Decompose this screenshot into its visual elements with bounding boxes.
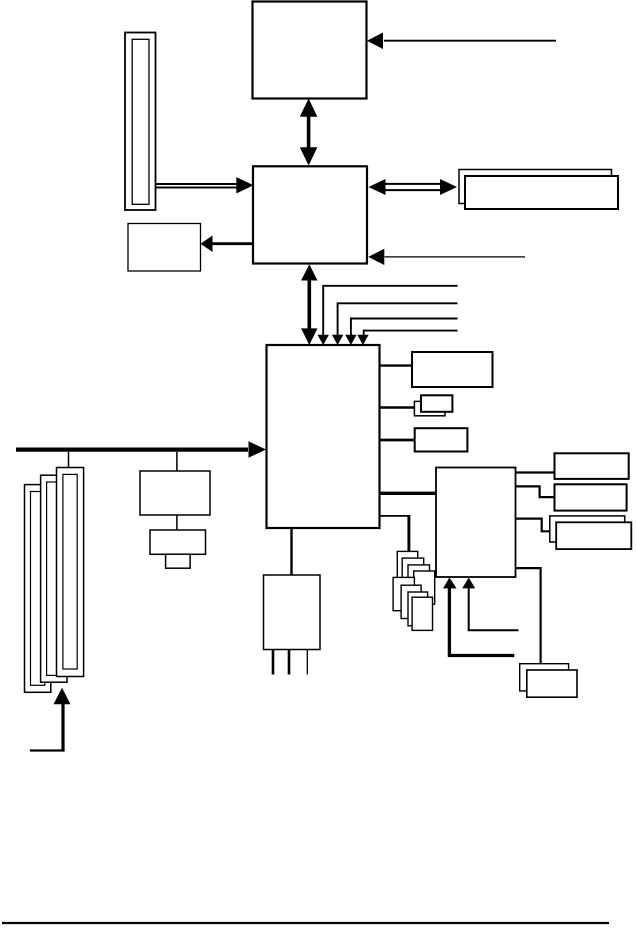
wire bent line 2 into controller top bbox=[332, 303, 458, 345]
wire pin 1 below bottom box bbox=[272, 650, 275, 675]
box bottom connector bbox=[264, 575, 321, 650]
card cascade 5 bbox=[393, 577, 414, 610]
wire main bus with arrowhead into controller bbox=[16, 441, 266, 457]
slot Slot1 inner bbox=[132, 39, 149, 204]
wire south bridge to box B bbox=[516, 486, 555, 497]
box D back bbox=[520, 664, 569, 691]
wire feed to card cascade bbox=[380, 515, 409, 552]
card cascade 8 bbox=[412, 597, 432, 630]
footer rule bbox=[2, 922, 609, 924]
wire up arrow 2 into south bridge bottom bbox=[462, 578, 518, 631]
box B (right middle) bbox=[555, 484, 627, 510]
box DIMM front bbox=[465, 176, 618, 209]
card cascade 4 bbox=[414, 571, 435, 604]
card cascade 3 bbox=[408, 565, 430, 591]
wire thin arrow into north bridge right bbox=[368, 249, 525, 265]
wire bent line 1 into controller top bbox=[318, 286, 458, 345]
wire bus drop to keyboard box bbox=[176, 452, 178, 471]
wire arrow north bridge to regulator bbox=[201, 236, 254, 253]
slot PCI front outer bbox=[57, 468, 84, 677]
box C back bbox=[550, 516, 625, 542]
wire vertical double arrow north bridge - main controller bbox=[301, 264, 317, 345]
box DIMM back bbox=[459, 170, 612, 204]
wire bus drop to slots bbox=[68, 452, 70, 468]
wire up arrow 1 into south bridge bottom bbox=[443, 578, 514, 656]
wire south bridge to box D bbox=[516, 568, 541, 664]
slot PCI back outer bbox=[25, 485, 51, 693]
box peripheral 3 bbox=[415, 428, 468, 451]
box north bridge (middle) bbox=[253, 166, 367, 263]
wire pin 3 below bottom box bbox=[306, 650, 308, 675]
wire arrow into CPU right side bbox=[367, 33, 556, 50]
wire double-line arrow Slot1 to north bridge bbox=[155, 177, 253, 193]
card cascade 1 bbox=[397, 551, 417, 578]
wire to peripheral box 3 bbox=[380, 439, 415, 442]
box peripheral 1 bbox=[412, 352, 493, 387]
box south bridge (right) bbox=[436, 468, 516, 578]
wire south bridge to box A bbox=[516, 471, 555, 473]
box C front bbox=[556, 522, 631, 549]
card cascade 2 bbox=[402, 558, 424, 584]
slot PCI front inner bbox=[63, 474, 77, 669]
slot PCI middle inner bbox=[47, 482, 61, 675]
wire pin 2 below bottom box bbox=[288, 650, 291, 675]
box D front bbox=[527, 670, 577, 697]
card cascade 6 bbox=[401, 585, 421, 618]
wire bent line 3 into controller top bbox=[345, 319, 457, 346]
wire up arrow into PCI slots bbox=[30, 688, 71, 751]
wire bent line 4 into controller top bbox=[357, 331, 457, 345]
box keyboard connector bbox=[150, 530, 206, 554]
wire thick controller to south box bbox=[380, 492, 437, 495]
wire vertical double arrow CPU-northbridge bbox=[300, 99, 318, 166]
card cascade 7 bbox=[408, 592, 428, 626]
wire keyboard to connector bbox=[176, 515, 178, 530]
slot Slot1 (top left, outer) bbox=[125, 33, 156, 211]
box keyboard plug bbox=[166, 554, 191, 568]
box A (right top) bbox=[555, 453, 629, 479]
box main controller (large) bbox=[267, 345, 380, 528]
box CPU (top center) bbox=[253, 2, 367, 99]
slot PCI back inner bbox=[31, 492, 45, 686]
box keyboard controller bbox=[140, 471, 210, 515]
box peripheral 2 back bbox=[414, 401, 445, 415]
box regulator (small left) bbox=[128, 224, 201, 272]
wire to peripheral box 1 bbox=[380, 364, 413, 366]
wire controller to bottom box bbox=[290, 528, 292, 575]
wire double-line arrow north bridge to DIMM bbox=[369, 179, 458, 195]
slot PCI middle outer bbox=[41, 475, 67, 682]
wire south bridge to box C bbox=[516, 519, 550, 532]
box peripheral 2 front bbox=[421, 395, 452, 412]
wire to peripheral box 2 bbox=[380, 406, 415, 408]
